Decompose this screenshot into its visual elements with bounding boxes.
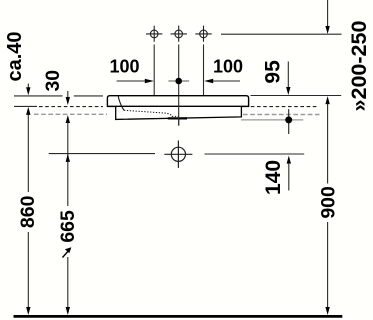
rim bottom edge redraw	[107, 105, 248, 107]
dimension 860 label	[17, 195, 39, 228]
svg-text:ca.40: ca.40	[4, 31, 26, 81]
dimension ca.40 top arrow (down)	[26, 84, 30, 96]
faucet hole circle center	[171, 26, 187, 42]
dimension ca.40 label	[4, 31, 26, 81]
hidden edge dashed line right (rim bottom level)	[251, 106, 319, 108]
svg-text:100: 100	[213, 56, 243, 76]
dimension 140 label	[262, 160, 285, 195]
dimension line for faucet height: top line at wall	[221, 0, 342, 34]
water supply point: grey line, vertical line, filled dot	[241, 109, 303, 134]
dimension 900 label	[317, 186, 339, 219]
dimension 200-250 label	[347, 21, 371, 112]
dimension 860 line segments	[27, 115, 29, 309]
svg-text:»200-250: »200-250	[347, 21, 371, 112]
faucet hole circle right	[195, 26, 211, 42]
svg-text:900: 900	[317, 186, 339, 219]
wall line at rim level, left of basin	[14, 95, 103, 97]
svg-text:95: 95	[262, 60, 285, 84]
solid line below rim, far left	[14, 105, 37, 107]
dimension 665 label	[57, 210, 79, 243]
dimension 100 right: tail, arrowhead, label	[204, 56, 243, 83]
grey dashed line right (bowl hidden level)	[243, 114, 320, 116]
faucet supply dot on centerline	[168, 78, 189, 85]
washbasin bowl underside	[116, 106, 242, 119]
dimension 140 arrow (up) and tail	[287, 156, 291, 191]
dimension 665 line segments with double up arrows	[67, 123, 69, 309]
svg-text:30: 30	[42, 70, 64, 92]
wall line at rim level, right of basin	[251, 95, 342, 97]
svg-text:140: 140	[262, 160, 285, 195]
dimension 30 label	[42, 70, 64, 92]
hidden edge dashed line left (rim bottom level)	[39, 106, 103, 108]
drain flange dark segment	[168, 117, 187, 119]
dimension 665 bottom arrow	[66, 307, 70, 315]
grey dashed line left (bowl hidden level)	[34, 113, 107, 115]
drain crosshair circle	[164, 141, 192, 168]
washbasin rim (side view)	[107, 96, 248, 107]
centerline through faucet	[178, 45, 180, 126]
svg-text:860: 860	[17, 195, 39, 228]
dimension 860 bottom arrow	[26, 307, 30, 315]
dimension 30 bottom arrow (up), start of 665 line	[66, 115, 70, 123]
dimension 665 up arrow at drain line	[66, 154, 70, 162]
floor line	[14, 315, 343, 318]
drain centerline left segment	[49, 153, 155, 155]
extension line right faucet hole	[203, 45, 205, 96]
adjustable height symbol (small NE arrow)	[63, 247, 72, 257]
basin inner profile dotted line	[124, 110, 179, 116]
svg-text:665: 665	[57, 210, 79, 243]
basin inner profile solid curve	[118, 96, 124, 110]
dimension 95 arrow (down to rim line)	[286, 62, 290, 96]
drain centerline right segment	[205, 153, 305, 155]
dimension ca.40 bottom arrow (up), start of 860 line	[26, 107, 30, 115]
dimension 100 left: tail, arrowhead, label	[109, 56, 153, 83]
svg-text:100: 100	[109, 56, 139, 76]
dimension 900 line with arrows	[325, 96, 329, 315]
extension line left faucet hole	[153, 45, 155, 96]
centerline through basin below rim	[178, 96, 180, 126]
dimension 30 top arrow (down)	[66, 91, 70, 105]
dimension 95 label	[262, 60, 285, 84]
faucet hole circle left	[146, 26, 162, 42]
